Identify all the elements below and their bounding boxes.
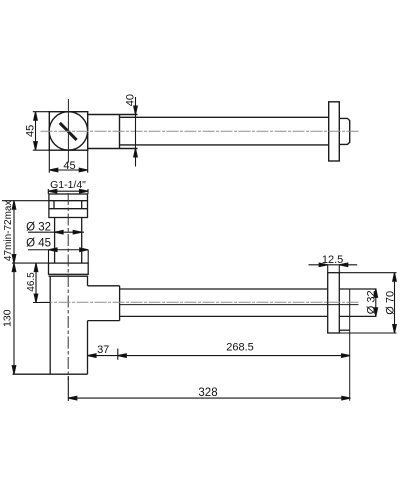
dimension 37 / 268.5	[88, 349, 351, 360]
dimension 46.5	[33, 263, 50, 302]
text 40 (rotated)	[124, 94, 136, 106]
dimension O32 (inlet)	[28, 230, 84, 234]
dimension O45 (ring)	[28, 248, 88, 263]
text 45 left of square (rotated)	[25, 125, 37, 137]
horizontal centerline (front view)	[41, 301, 361, 303]
dimension O32 (wall side)	[374, 289, 378, 317]
wall flange (top view)	[329, 102, 340, 161]
text 268.5	[226, 342, 254, 354]
svg-text:Ø 45: Ø 45	[26, 238, 51, 250]
svg-text:Ø 32: Ø 32	[26, 222, 51, 234]
svg-text:45: 45	[25, 125, 37, 137]
svg-text:40: 40	[124, 94, 136, 106]
outlet tube (front view)	[120, 289, 328, 316]
dimension 45 horizontal (top view)	[49, 150, 87, 173]
outlet connector	[88, 286, 120, 321]
svg-text:37: 37	[97, 344, 109, 356]
tube through wall	[339, 289, 376, 316]
collar behind flange	[339, 329, 349, 331]
vertical centerline of escutcheon	[67, 99, 69, 163]
svg-text:46.5: 46.5	[26, 272, 37, 292]
text O70 flange (rotated)	[385, 291, 397, 315]
text O32 wall (rotated)	[365, 290, 377, 314]
slot indicator diagonal	[60, 123, 77, 140]
text 130 (rotated)	[2, 309, 14, 327]
pipe end cap (top view)	[339, 118, 349, 144]
dimension 45 vertical (top view)	[33, 112, 50, 151]
dimension 47min-72max	[2, 201, 49, 263]
text O32 inlet	[26, 222, 51, 234]
svg-text:45: 45	[63, 160, 75, 172]
text 12.5	[322, 254, 343, 266]
dimension O70 (flange)	[328, 273, 397, 333]
body top ring (O45)	[49, 263, 89, 274]
svg-text:G1-1/4": G1-1/4"	[50, 179, 86, 191]
vertical inlet pipe	[55, 218, 82, 264]
svg-text:328: 328	[198, 387, 217, 399]
dimension 130	[12, 263, 16, 374]
tube (top view)	[120, 117, 329, 145]
dimension G1-1/4	[48, 189, 88, 194]
inner pipe line	[120, 304, 359, 306]
inlet nut G1-1/4	[49, 194, 88, 218]
vertical centerline (front view)	[67, 193, 69, 380]
text O45 ring	[26, 238, 51, 250]
dimension 328	[68, 376, 350, 401]
connector sleeve (top view)	[88, 115, 138, 149]
dimension 12.5 (flange thickness)	[309, 263, 358, 273]
text 46.5 (rotated)	[26, 272, 37, 292]
svg-text:268.5: 268.5	[226, 342, 254, 354]
svg-text:47min-72max: 47min-72max	[3, 201, 14, 262]
svg-text:12.5: 12.5	[322, 254, 343, 266]
rosette circle	[49, 112, 87, 150]
wall flange (front view)	[328, 273, 340, 333]
text G1-1/4"	[50, 179, 86, 191]
square escutcheon (top view)	[49, 112, 87, 151]
svg-text:130: 130	[2, 309, 14, 327]
horizontal centerline (top view)	[41, 130, 360, 132]
wall line	[349, 289, 351, 401]
text 37	[97, 344, 109, 356]
text 45 below square	[63, 160, 75, 172]
svg-text:Ø 70: Ø 70	[385, 291, 397, 315]
svg-text:Ø 32: Ø 32	[365, 290, 377, 314]
dimension 40 (top view)	[134, 97, 138, 167]
siphon body	[13, 276, 89, 374]
text 328	[198, 387, 217, 399]
text 47min-72max (rotated)	[3, 201, 14, 262]
